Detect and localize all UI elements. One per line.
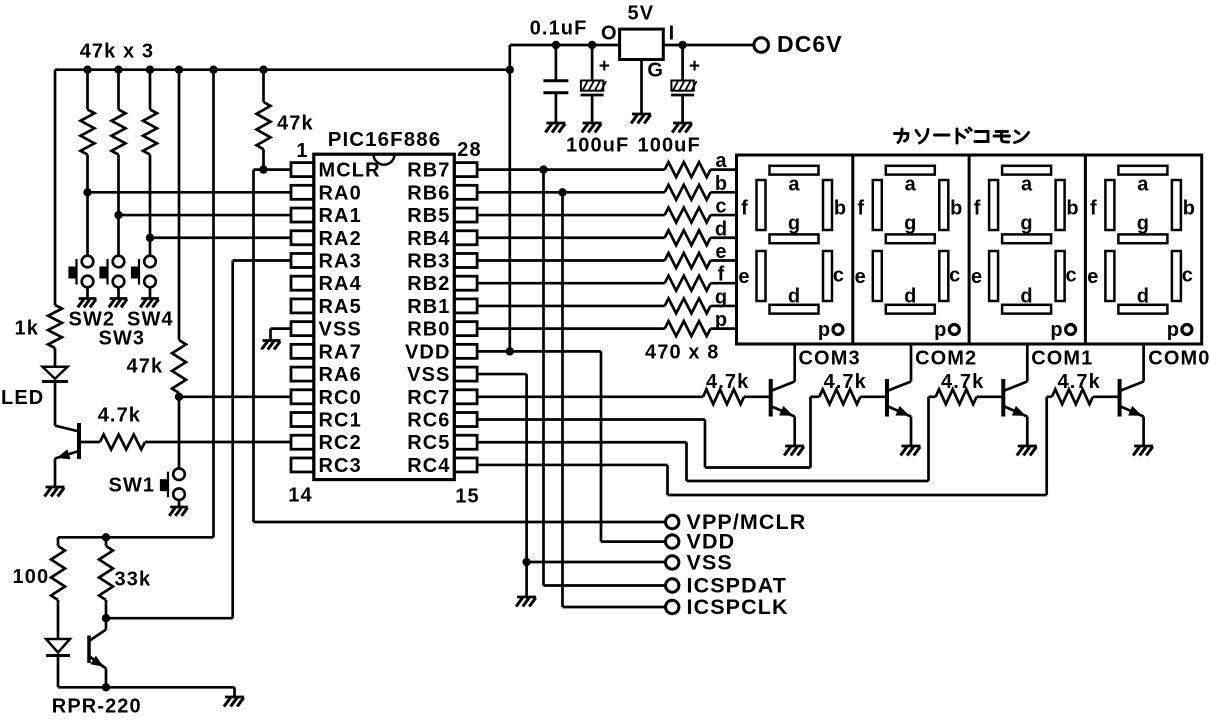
svg-text:47k: 47k	[127, 356, 164, 378]
segment f digit1	[757, 180, 766, 230]
svg-text:DC6V: DC6V	[777, 31, 843, 57]
svg-text:c: c	[1065, 265, 1077, 287]
wire 5V vertical feed to VDD	[508, 45, 511, 351]
label pin RB0 right	[407, 319, 450, 341]
transistor Q3 COM2	[887, 379, 911, 446]
resistor 470 d	[665, 230, 737, 245]
label pin VSS right	[407, 364, 450, 386]
label pin RC7 right	[407, 387, 450, 409]
op-amp U1 PIC16F886 body	[314, 154, 455, 479]
segment b digit4	[1172, 180, 1181, 230]
resistor 470 f	[665, 276, 737, 291]
label pin VSS	[319, 319, 362, 341]
svg-text:c: c	[833, 265, 845, 287]
resistor 1k	[48, 70, 62, 367]
pin box right RB0	[454, 322, 477, 336]
pin box left RC2	[291, 435, 314, 449]
transistor Q2 COM3	[771, 379, 795, 446]
label LED	[1, 387, 44, 409]
wire SW1 to ground	[178, 500, 181, 507]
svg-text:a: a	[905, 174, 917, 196]
label d digit1	[788, 286, 801, 308]
label g digit2	[904, 213, 917, 235]
label pin RA6	[319, 364, 362, 386]
label pin RA2	[319, 228, 362, 250]
node RB7 ICSPDAT tap	[539, 165, 547, 173]
svg-text:b: b	[950, 198, 963, 220]
segment d digit3	[1002, 305, 1051, 314]
label pin VDD right	[405, 341, 451, 363]
decimal point digit3	[1066, 325, 1076, 335]
node 33k top junction	[102, 533, 110, 541]
wire SW3 to ground	[117, 287, 120, 299]
decimal point digit4	[1182, 325, 1192, 335]
label pin RB4 right	[407, 228, 450, 250]
segment e digit2	[873, 251, 882, 301]
pin box right RB4	[454, 231, 477, 245]
svg-text:RA5: RA5	[319, 296, 362, 318]
ground RPR	[224, 697, 244, 707]
label c digit4	[1182, 265, 1194, 287]
svg-text:4.7k: 4.7k	[941, 371, 984, 393]
resistor 47k MCLR pull-up	[257, 70, 271, 170]
wire RB1 row	[477, 305, 665, 308]
decimal point digit2	[949, 325, 959, 335]
wire RC6 to COM2 base	[477, 397, 819, 468]
svg-text:e: e	[971, 266, 983, 288]
segment g digit3	[1002, 234, 1051, 243]
pin box right RB3	[454, 253, 477, 267]
svg-text:e: e	[1087, 266, 1099, 288]
node rail junction R2	[114, 66, 122, 74]
resistor 470 e	[665, 253, 737, 268]
wire 5V output rail	[510, 44, 754, 47]
label pin1	[296, 140, 308, 162]
ground COM3 emitter	[784, 446, 804, 456]
label g digit1	[788, 213, 801, 235]
svg-text:RB3: RB3	[407, 250, 450, 272]
label b digit1	[834, 198, 847, 220]
resistor 4.7k COM3	[703, 389, 771, 404]
node VDD junction	[506, 347, 514, 355]
label SW3	[99, 328, 146, 350]
wire RC0 to SW1	[178, 397, 181, 468]
svg-text:VDD: VDD	[405, 341, 451, 363]
svg-text:b: b	[1066, 198, 1079, 220]
svg-text:G: G	[647, 60, 664, 82]
label p digit1	[818, 319, 831, 341]
label pin28	[457, 139, 481, 161]
pin box right RB5	[454, 208, 477, 222]
resistor 4.7k COM1	[936, 389, 1004, 404]
label d digit2	[904, 286, 917, 308]
ground SW3	[109, 299, 128, 308]
svg-text:SW1: SW1	[109, 475, 156, 497]
switch SW3	[100, 256, 124, 288]
pin box left RA5	[291, 299, 314, 313]
label p digit3	[1050, 319, 1063, 341]
node 0.1uF tap	[552, 41, 560, 49]
resistor 4.7k Q1 base	[80, 435, 291, 450]
connector pad VSS	[666, 556, 679, 569]
svg-text:e: e	[855, 266, 867, 288]
wire RB3 row	[477, 259, 665, 262]
wire collector stub COM0	[1142, 344, 1145, 382]
svg-text:RA1: RA1	[319, 205, 362, 227]
label 4.7k COM1	[941, 371, 984, 393]
label c digit1	[833, 265, 845, 287]
ground COM2 emitter	[901, 446, 921, 456]
segment a digit2	[886, 166, 935, 175]
segment d digit1	[770, 305, 819, 314]
svg-text:1: 1	[296, 140, 308, 162]
wire RA0	[88, 191, 292, 194]
label VPP/MCLR	[687, 510, 807, 534]
label pin RC0	[319, 387, 362, 409]
regulator 5V three-terminal	[620, 29, 664, 114]
label 4.7k COM0	[1058, 371, 1101, 393]
node 5V-rail-left	[506, 66, 514, 74]
connector pad ICSPCLK	[666, 600, 679, 613]
svg-text:f: f	[718, 264, 726, 286]
ground SW4	[140, 299, 159, 308]
label SW1	[109, 475, 156, 497]
label pin RC2	[319, 432, 362, 454]
label COM0	[1148, 348, 1210, 370]
pin box right RB7	[454, 163, 477, 177]
connector pad ICSPDAT	[666, 579, 679, 592]
svg-text:28: 28	[457, 139, 481, 161]
connector pad VDD	[666, 535, 679, 548]
LED D1	[42, 367, 68, 426]
svg-text:d: d	[715, 218, 728, 240]
wire VSS to ICSP	[527, 561, 666, 564]
label a digit4	[1137, 174, 1149, 196]
svg-text:0.1uF: 0.1uF	[530, 18, 588, 40]
svg-text:RC7: RC7	[407, 387, 450, 409]
wire SW4 to ground	[149, 287, 152, 299]
label pin RA5	[319, 296, 362, 318]
wire SW4 drop	[149, 238, 152, 256]
pin box left MCLR	[291, 163, 314, 177]
segment d digit4	[1118, 305, 1167, 314]
label katakana cathode-common	[895, 128, 1029, 143]
label b digit3	[1066, 198, 1079, 220]
svg-text:RC2: RC2	[319, 432, 362, 454]
svg-text:RB6: RB6	[407, 182, 450, 204]
node SW3 junction	[114, 211, 122, 219]
svg-text:ICSPCLK: ICSPCLK	[687, 595, 789, 619]
label RPR-220	[52, 696, 142, 718]
svg-text:RA7: RA7	[319, 341, 362, 363]
capacitor C2 100uF	[581, 45, 611, 123]
svg-text:LED: LED	[1, 387, 44, 409]
transistor RPR-220 phototransistor	[89, 618, 106, 687]
label ICSPCLK	[687, 595, 789, 619]
wire collector stub COM3	[793, 344, 796, 382]
pin box right RB6	[454, 185, 477, 199]
label pin14	[288, 485, 312, 507]
svg-text:b: b	[1183, 198, 1196, 220]
svg-text:b: b	[834, 198, 847, 220]
label COM2	[915, 348, 977, 370]
segment f digit3	[989, 180, 998, 230]
node SW4 junction	[146, 234, 154, 242]
label seg wire g	[715, 286, 728, 308]
label d digit3	[1020, 286, 1033, 308]
wire RC0	[179, 395, 291, 398]
svg-text:g: g	[1020, 213, 1033, 235]
ground VSS right	[516, 597, 536, 607]
label I	[669, 23, 676, 45]
svg-text:4.7k: 4.7k	[98, 405, 141, 427]
svg-text:g: g	[788, 213, 801, 235]
ground SW1	[169, 507, 188, 516]
wire ICSPCLK	[563, 192, 666, 607]
wire RPR power drop	[58, 70, 214, 538]
wire VDD row	[477, 350, 601, 353]
pin box left RA6	[291, 367, 314, 381]
wire RB6 row	[477, 191, 665, 194]
label pin RA4	[319, 273, 362, 295]
wire RA3 to photo sensor	[106, 260, 291, 618]
label seg wire b	[715, 173, 728, 195]
label d digit4	[1137, 286, 1150, 308]
segment a digit3	[1002, 166, 1051, 175]
svg-text:I: I	[669, 23, 676, 45]
svg-text:15: 15	[455, 486, 479, 508]
pin box left RA3	[291, 253, 314, 267]
label PIC16F886	[328, 128, 442, 151]
label seg wire a	[715, 150, 727, 172]
node rail junction 47k-RC0	[175, 66, 183, 74]
label G	[647, 60, 664, 82]
segment a digit1	[770, 166, 819, 175]
svg-text:RC1: RC1	[319, 410, 362, 432]
ground regulator G	[631, 114, 651, 124]
svg-text:ICSPDAT: ICSPDAT	[687, 574, 787, 598]
svg-text:RB5: RB5	[407, 205, 450, 227]
svg-text:1k: 1k	[15, 318, 39, 340]
pin box right RC6	[454, 413, 477, 427]
svg-text:100: 100	[13, 566, 50, 588]
label 100uF C2	[566, 135, 629, 157]
resistor 470 b	[665, 185, 737, 200]
connector pad VPP/MCLR	[666, 515, 679, 528]
svg-text:p: p	[715, 309, 728, 331]
pin box left RA7	[291, 344, 314, 358]
ground COM0 emitter	[1133, 446, 1153, 456]
wire collector stub COM2	[910, 344, 913, 382]
svg-text:p: p	[934, 319, 947, 341]
label 5V	[628, 3, 655, 25]
label p digit2	[934, 319, 947, 341]
wire RB5 row	[477, 214, 665, 217]
svg-text:f: f	[974, 198, 982, 220]
svg-text:c: c	[1182, 265, 1194, 287]
segment b digit1	[823, 180, 832, 230]
resistor 470 p	[665, 321, 737, 336]
pin box right RB2	[454, 276, 477, 290]
svg-text:5V: 5V	[628, 3, 655, 25]
wire VDD to ICSP	[601, 351, 666, 541]
segment b digit3	[1056, 180, 1065, 230]
label pin RB1 right	[407, 296, 450, 318]
resistor 470 a	[665, 162, 737, 177]
resistor 4.7k COM0	[1052, 389, 1120, 404]
label seg wire p	[715, 309, 728, 331]
node rail junction R1	[83, 66, 91, 74]
label 0.1uF	[530, 18, 588, 40]
svg-text:470 x 8: 470 x 8	[645, 342, 719, 364]
label seg wire c	[715, 196, 727, 218]
capacitor 0.1uF	[543, 45, 568, 123]
segment g digit4	[1118, 234, 1167, 243]
label pin RB3 right	[407, 250, 450, 272]
label pin RC3	[319, 455, 362, 477]
label 4.7k COM2	[824, 371, 867, 393]
segment c digit1	[823, 251, 832, 301]
label f digit3	[974, 198, 982, 220]
svg-text:VSS: VSS	[319, 319, 362, 341]
resistor R3 47k	[143, 70, 157, 238]
resistor R2 47k	[112, 70, 126, 215]
pin box left RC3	[291, 458, 314, 472]
label e digit4	[1087, 266, 1099, 288]
svg-text:+: +	[689, 56, 701, 77]
label pin MCLR	[319, 160, 381, 182]
label pin RC5 right	[407, 432, 450, 454]
decimal point digit1	[833, 325, 843, 335]
segment e digit4	[1105, 251, 1114, 301]
wire main pull-up rail	[55, 68, 510, 71]
svg-text:COM0: COM0	[1148, 348, 1210, 370]
svg-text:SW3: SW3	[99, 328, 146, 350]
ground SW2	[78, 299, 97, 308]
wire RPR bottom rail	[58, 687, 235, 697]
pin box left RC1	[291, 413, 314, 427]
label O	[601, 23, 618, 45]
label pin RB7 right	[407, 160, 450, 182]
label ICSPDAT	[687, 574, 787, 598]
label 100	[13, 566, 50, 588]
label COM1	[1031, 348, 1093, 370]
resistor 4.7k COM2	[819, 389, 887, 404]
svg-text:PIC16F886: PIC16F886	[328, 128, 442, 151]
svg-text:+: +	[599, 56, 611, 77]
label SW4	[127, 309, 174, 331]
resistor 470 c	[665, 208, 737, 223]
node C2 tap	[588, 41, 596, 49]
ground 0.1uF	[545, 123, 565, 133]
svg-text:RA2: RA2	[319, 228, 362, 250]
ground C2	[582, 123, 602, 133]
segment f digit2	[873, 180, 882, 230]
segment d digit2	[886, 305, 935, 314]
transistor Q4 COM1	[1003, 379, 1027, 446]
pin box left RA2	[291, 231, 314, 245]
node VSS ICSP tap	[522, 558, 530, 566]
segment b digit2	[939, 180, 948, 230]
label e digit2	[855, 266, 867, 288]
svg-text:c: c	[715, 196, 727, 218]
svg-text:33k: 33k	[115, 569, 152, 591]
node rail junction R3	[146, 66, 154, 74]
svg-text:RC0: RC0	[319, 387, 362, 409]
capacitor C3 100uF	[671, 45, 701, 123]
label pin RC6 right	[407, 410, 450, 432]
pin box right RC7	[454, 390, 477, 404]
resistor 47k RC0 pull-up	[172, 70, 186, 397]
segment f digit4	[1105, 180, 1114, 230]
svg-text:COM3: COM3	[799, 348, 861, 370]
svg-text:f: f	[741, 198, 749, 220]
segment c digit2	[939, 251, 948, 301]
label pin RC4 right	[407, 455, 450, 477]
svg-text:RB2: RB2	[407, 273, 450, 295]
label pin RA1	[319, 205, 362, 227]
label COM3	[799, 348, 861, 370]
label 1k	[15, 318, 39, 340]
svg-text:47k x 3: 47k x 3	[80, 41, 154, 63]
label f digit1	[741, 198, 749, 220]
node SW2 junction	[83, 188, 91, 196]
transistor Q5 COM0	[1120, 379, 1144, 446]
ground Q1 emitter	[45, 487, 65, 497]
svg-text:14: 14	[288, 485, 312, 507]
svg-text:RC3: RC3	[319, 455, 362, 477]
label seg wire e	[715, 241, 727, 263]
label pin RA0	[319, 182, 362, 204]
svg-text:RA6: RA6	[319, 364, 362, 386]
label 47k MCLR	[277, 113, 314, 135]
pin box left VSS	[291, 322, 314, 336]
wire RB7 row	[477, 168, 665, 171]
label c digit2	[949, 265, 961, 287]
ground COM1 emitter	[1017, 446, 1037, 456]
label pin RB6 right	[407, 182, 450, 204]
switch SW2	[69, 256, 93, 288]
wire VSS right	[477, 374, 526, 597]
connector DC6V	[754, 31, 843, 57]
svg-text:g: g	[904, 213, 917, 235]
label b digit2	[950, 198, 963, 220]
svg-text:c: c	[949, 265, 961, 287]
svg-text:RC6: RC6	[407, 410, 450, 432]
diode RPR-220 emitter LED	[46, 639, 70, 687]
wire SW2 drop	[86, 192, 89, 256]
svg-text:MCLR: MCLR	[319, 160, 381, 182]
label pin RA7	[319, 341, 362, 363]
svg-text:b: b	[715, 173, 728, 195]
resistor R1 47k	[81, 70, 95, 193]
pin box right VSS	[454, 367, 477, 381]
label pin RB5 right	[407, 205, 450, 227]
wire ICSPDAT	[544, 170, 666, 586]
label pin RA3	[319, 250, 362, 272]
svg-text:O: O	[601, 23, 618, 45]
segment a digit4	[1118, 166, 1167, 175]
ground C3	[672, 123, 692, 133]
label a digit2	[905, 174, 917, 196]
wire collector stub COM1	[1026, 344, 1029, 382]
label g digit3	[1020, 213, 1033, 235]
svg-text:4.7k: 4.7k	[824, 371, 867, 393]
svg-text:RPR-220: RPR-220	[52, 696, 142, 718]
pin box right RC4	[454, 458, 477, 472]
label pin15	[455, 486, 479, 508]
pin box left RA4	[291, 276, 314, 290]
